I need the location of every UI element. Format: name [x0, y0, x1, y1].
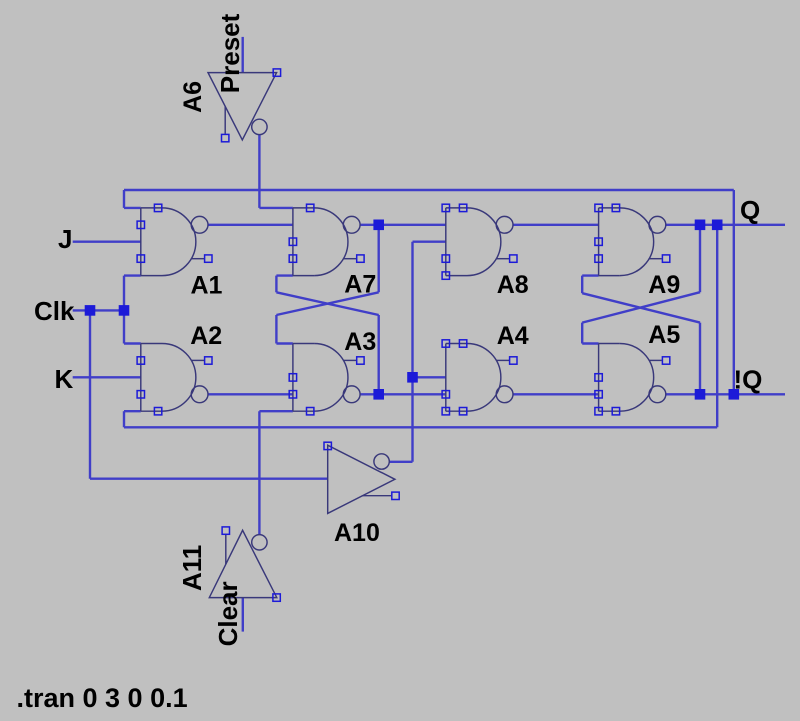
wire Q feedback riser right: [716, 225, 718, 427]
wire cross vertical from A7 output node: [378, 225, 380, 292]
wire A1 bottom entry stub: [124, 274, 141, 276]
junction A7 output node: [373, 220, 384, 231]
inverter A11 (Clear driver, pointing up): [209, 527, 280, 601]
svg-text:A9: A9: [648, 271, 680, 299]
wire Clear to A3 bottom entry: [259, 410, 293, 412]
wire clock riser down to A10: [89, 310, 91, 478]
wire A7 cross drop left: [275, 276, 277, 293]
wire cross vertical to A3 output node: [378, 315, 380, 394]
wire cross vertical to A5 output node: [699, 323, 701, 395]
wire A3 top entry stub: [276, 342, 293, 344]
wire inverted clock to A8: [413, 240, 446, 242]
svg-text:A11: A11: [177, 545, 207, 591]
svg-text:A8: A8: [497, 271, 529, 299]
wire cross vertical from Q node: [699, 225, 701, 292]
svg-text:J: J: [58, 224, 72, 254]
NAND gate A9: [595, 204, 670, 275]
wire A2 bottom entry stub: [124, 410, 141, 412]
wire A2 top entry stub: [124, 342, 141, 344]
junction Q node A: [695, 220, 706, 231]
svg-text:A7: A7: [344, 271, 376, 299]
wire bus drop to A1 top: [123, 190, 125, 208]
NAND gate A7: [289, 204, 364, 275]
wire bottom feedback bus: [124, 426, 717, 428]
wire A7 output to A8: [360, 224, 446, 226]
svg-text:Clear: Clear: [213, 581, 243, 646]
wire inverted clock to A4: [413, 376, 446, 378]
wire A7 bottom entry stub: [276, 274, 293, 276]
wire cross diagonal A7 to A3: [276, 292, 378, 315]
svg-text:.tran 0 3 0 0.1: .tran 0 3 0 0.1: [17, 683, 188, 713]
wire top feedback bus: [124, 189, 734, 191]
NAND gate A1: [137, 204, 212, 275]
wire cross diagonal A9 to A5: [582, 293, 700, 322]
svg-text:A2: A2: [190, 322, 222, 350]
wire A9 bottom entry stub: [582, 274, 598, 276]
wire Preset to A7 top entry: [259, 207, 293, 209]
wire A3 cross rise left: [275, 315, 277, 344]
wire cross diagonal A5 to A9: [582, 292, 700, 322]
wire A10 input: [90, 478, 328, 480]
wire cross diagonal A3 to A7: [276, 292, 378, 315]
node Clk input wire: [73, 309, 124, 311]
junction Q node B: [712, 220, 723, 231]
svg-text:A6: A6: [179, 81, 207, 113]
inverter A6 (Preset driver, pointing down): [208, 69, 281, 142]
NAND gate A2: [137, 344, 212, 415]
wire A1 output to A7: [208, 224, 293, 226]
junction !Q node B: [729, 389, 740, 400]
wire Q feedback drop left: [123, 411, 125, 427]
wire !Q feedback riser to top bus: [733, 190, 735, 394]
svg-text:A10: A10: [334, 519, 380, 547]
svg-text:A5: A5: [648, 321, 680, 349]
svg-text:A3: A3: [344, 328, 376, 356]
svg-text:Preset: Preset: [215, 13, 245, 93]
NAND gate A8: [442, 204, 517, 279]
junction Clk node B: [119, 305, 130, 316]
NAND gate A3: [289, 344, 364, 415]
wire Clear riser: [258, 411, 260, 534]
svg-text:K: K: [55, 364, 74, 394]
wire A3 output to A4: [360, 393, 446, 395]
junction !Q node A: [695, 389, 706, 400]
wire clock vertical A1-A2: [123, 276, 125, 344]
inverter A10 (clock inverter, pointing right): [324, 442, 399, 513]
wire A4 output to A5: [513, 393, 599, 395]
NAND gate A5: [595, 344, 670, 415]
wire A5 cross rise left: [581, 323, 583, 344]
wire A10 output stub: [389, 461, 412, 463]
svg-text:A1: A1: [191, 272, 223, 300]
junction inverted clock branch: [407, 372, 418, 383]
wire Preset riser: [258, 135, 260, 208]
node !Q output wire: [666, 393, 785, 395]
wire A2 output to A3: [208, 393, 293, 395]
wire A8 output to A9: [513, 224, 599, 226]
svg-text:Q: Q: [740, 195, 760, 225]
svg-text:A4: A4: [497, 322, 529, 350]
junction Clk node A: [85, 305, 96, 316]
node K input wire: [73, 376, 141, 378]
node J input wire: [73, 240, 141, 242]
NAND gate A4: [442, 340, 517, 415]
wire inverted clock riser: [411, 242, 413, 462]
svg-text:Clk: Clk: [34, 296, 75, 326]
wire A9 cross drop left: [581, 276, 583, 294]
wire A5 top entry stub: [582, 342, 598, 344]
wire A6 input stub: [241, 37, 243, 73]
wire A1 top entry: [124, 207, 141, 209]
svg-text:!Q: !Q: [734, 365, 763, 395]
node Q output wire: [666, 224, 785, 226]
wire A11 input stub: [242, 598, 244, 632]
junction A3 output node: [373, 389, 384, 400]
